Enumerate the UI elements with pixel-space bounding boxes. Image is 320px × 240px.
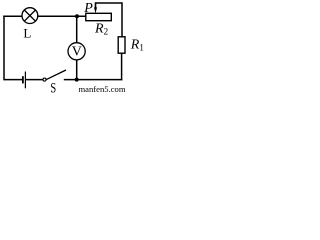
wire voltmeter top lead (76, 16, 78, 43)
svg-text:P: P (83, 1, 93, 16)
battery (23, 72, 26, 89)
wire bottom left segment (4, 79, 22, 81)
wire lamp to rheostat (37, 15, 86, 17)
wire battery to switch (26, 79, 43, 81)
wire top-left segment (3, 15, 22, 17)
svg-text:S: S (50, 81, 56, 96)
switch S (43, 70, 66, 81)
lamp L (22, 8, 38, 24)
svg-text:manfen5.com: manfen5.com (79, 84, 126, 94)
wire bottom right segment (64, 79, 123, 81)
rheostat R2 body (86, 13, 112, 20)
svg-text:R1: R1 (130, 37, 144, 52)
svg-text:L: L (23, 26, 31, 41)
svg-text:V: V (72, 45, 82, 60)
wire right rail lower (121, 53, 123, 80)
resistor R1 (118, 37, 125, 53)
svg-text:R2: R2 (94, 21, 108, 36)
wire left rail (3, 16, 5, 81)
node voltmeter top junction (75, 14, 79, 18)
wire wiper to top-right corner (95, 3, 122, 37)
node voltmeter bottom junction (75, 78, 79, 82)
wire voltmeter bottom lead (76, 60, 78, 80)
voltmeter U-V (68, 43, 85, 60)
rheostat R2 wiper arrow P (94, 2, 97, 13)
